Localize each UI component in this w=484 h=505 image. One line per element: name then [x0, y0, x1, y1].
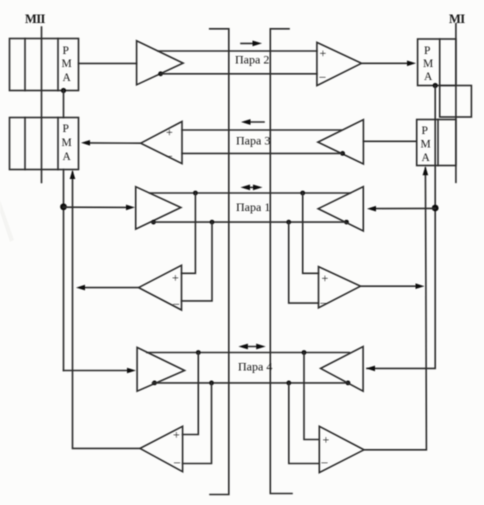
svg-text:MI: MI: [449, 12, 465, 26]
node tap pair4 right upper: [302, 350, 307, 355]
wire right receive bus vertical: [364, 168, 426, 450]
wire pair1 right hybrid output: [361, 285, 418, 287]
PMA block left U2: [10, 118, 79, 170]
block offset rectangle: [440, 86, 472, 118]
node dot on transmitter output lower: [158, 71, 163, 76]
node tap pair1 right lower: [286, 220, 291, 225]
arrowhead into PMA U2 bottom: [70, 170, 76, 179]
svg-text:–: –: [165, 148, 173, 162]
svg-text:A: A: [422, 152, 431, 164]
node junction right bus pair1 tap: [432, 205, 439, 212]
receiver pair3 left: [141, 122, 182, 164]
node junction left PMA U1 bottom: [61, 88, 66, 93]
watermark artifact: [0, 200, 14, 242]
svg-text:Пара 4: Пара 4: [238, 360, 272, 374]
svg-text:Пара 2: Пара 2: [235, 53, 269, 67]
node dot pair1 tx lower: [151, 220, 156, 225]
PMA block right U3: [418, 39, 456, 86]
svg-text:Пара 1: Пара 1: [236, 200, 270, 214]
arrowhead into PMA U4 bottom: [423, 166, 429, 175]
node tap pair4 left upper: [196, 350, 201, 355]
wire right bus to pair1 buffer: [371, 207, 435, 209]
hybrid receiver pair1 left: [139, 265, 182, 310]
node dot on pair3 transmitter lower: [340, 151, 345, 156]
wire tap to hybrid minus (right, pair4): [289, 383, 320, 464]
buffer pair1 right: [318, 187, 363, 231]
node tap pair1 left lower: [210, 220, 215, 225]
transmitter pair2 left: [137, 41, 184, 85]
wire pair3 lower: [182, 152, 343, 154]
svg-text:–: –: [319, 69, 327, 83]
wire pair4 upper: [147, 352, 349, 354]
hybrid receiver pair4 left: [140, 426, 183, 471]
node junction right PMA U3 bottom: [433, 83, 438, 88]
buffer pair4 right: [321, 347, 364, 392]
cable boundary line right: [270, 29, 292, 494]
node tap pair4 left lower: [209, 381, 214, 386]
svg-text:A: A: [63, 72, 72, 84]
hybrid receiver pair1 right: [319, 267, 361, 309]
svg-text:P: P: [422, 125, 428, 137]
wire pair2 drive line from PMA U1: [79, 62, 137, 64]
wire tap to hybrid plus (left, pair4): [183, 353, 199, 435]
svg-text:+: +: [172, 271, 179, 285]
svg-text:–: –: [321, 455, 329, 469]
node tap pair4 right lower: [286, 381, 291, 386]
wire tap to hybrid plus (right): [303, 193, 319, 273]
svg-text:A: A: [63, 151, 72, 163]
wire pair2 upper: [158, 50, 317, 52]
wire left receive bus B vertical: [73, 172, 140, 448]
node dot pair4 right tx lower: [346, 381, 351, 386]
svg-text:+: +: [173, 428, 180, 442]
svg-text:MII: MII: [25, 12, 45, 26]
wire tap to hybrid plus (left): [182, 193, 196, 273]
svg-text:M: M: [421, 139, 431, 151]
wire tap to hybrid plus (right, pair4): [304, 353, 319, 440]
wire pair4 lower: [153, 382, 348, 384]
cable boundary line left: [210, 29, 229, 495]
PMA block left U1: [10, 39, 79, 91]
node junction bus A pair1 tap: [60, 203, 67, 210]
wire left transmit bus A vertical: [63, 91, 65, 371]
svg-text:–: –: [320, 295, 328, 309]
transmitter pair3 right: [318, 120, 364, 164]
wire pair2 lower: [161, 73, 317, 75]
receiver pair2 right: [317, 42, 362, 85]
PMA block right U4: [417, 120, 456, 166]
wire pair3 drive line from PMA U4: [363, 140, 416, 142]
wire tap to hybrid minus (right): [289, 222, 319, 303]
svg-text:P: P: [63, 123, 69, 135]
wire pair3 upper: [182, 129, 341, 131]
wire MII interface line (right): [455, 24, 457, 183]
svg-text:+: +: [320, 46, 327, 60]
transmitter pair1 left: [136, 187, 181, 229]
svg-text:+: +: [166, 125, 173, 139]
node tap pair1 right upper: [300, 191, 305, 196]
wire bus A to pair1 transmitter: [64, 206, 129, 208]
node tap pair1 left upper: [193, 191, 198, 196]
svg-text:–: –: [172, 296, 180, 310]
wire pair1 upper: [149, 192, 350, 194]
svg-text:A: A: [424, 71, 433, 83]
arrow pair1 direction: [241, 185, 263, 191]
arrow pair4 direction: [238, 344, 265, 350]
wire pair3 receiver output: [88, 142, 141, 144]
wire pair2 receiver output: [362, 62, 410, 64]
svg-text:P: P: [424, 45, 430, 57]
wire tap to hybrid minus (left): [182, 222, 213, 301]
wire MII interface line (left): [41, 27, 43, 183]
node dot pair4 tx lower: [152, 381, 157, 386]
svg-text:Пара 3: Пара 3: [236, 134, 270, 148]
svg-text:P: P: [63, 45, 69, 57]
wire bus A to pair4 transmitter: [64, 370, 130, 372]
wire pair1 left hybrid output: [84, 287, 139, 289]
arrow pair2 direction: [241, 41, 262, 47]
wire tap to hybrid minus (left, pair4): [183, 383, 212, 464]
svg-text:+: +: [323, 433, 330, 447]
transmitter pair4 left: [137, 347, 185, 391]
arrow pair3 direction: [241, 119, 264, 125]
wire pair1 lower: [151, 221, 345, 223]
node dot pair1 rx lower: [344, 220, 349, 225]
hybrid receiver pair4 right: [319, 426, 364, 472]
svg-text:+: +: [322, 271, 329, 285]
svg-text:M: M: [62, 137, 72, 149]
wire right transmit bus vertical: [367, 86, 435, 369]
svg-text:M: M: [423, 58, 433, 70]
svg-text:–: –: [173, 455, 181, 469]
svg-text:M: M: [62, 58, 72, 70]
